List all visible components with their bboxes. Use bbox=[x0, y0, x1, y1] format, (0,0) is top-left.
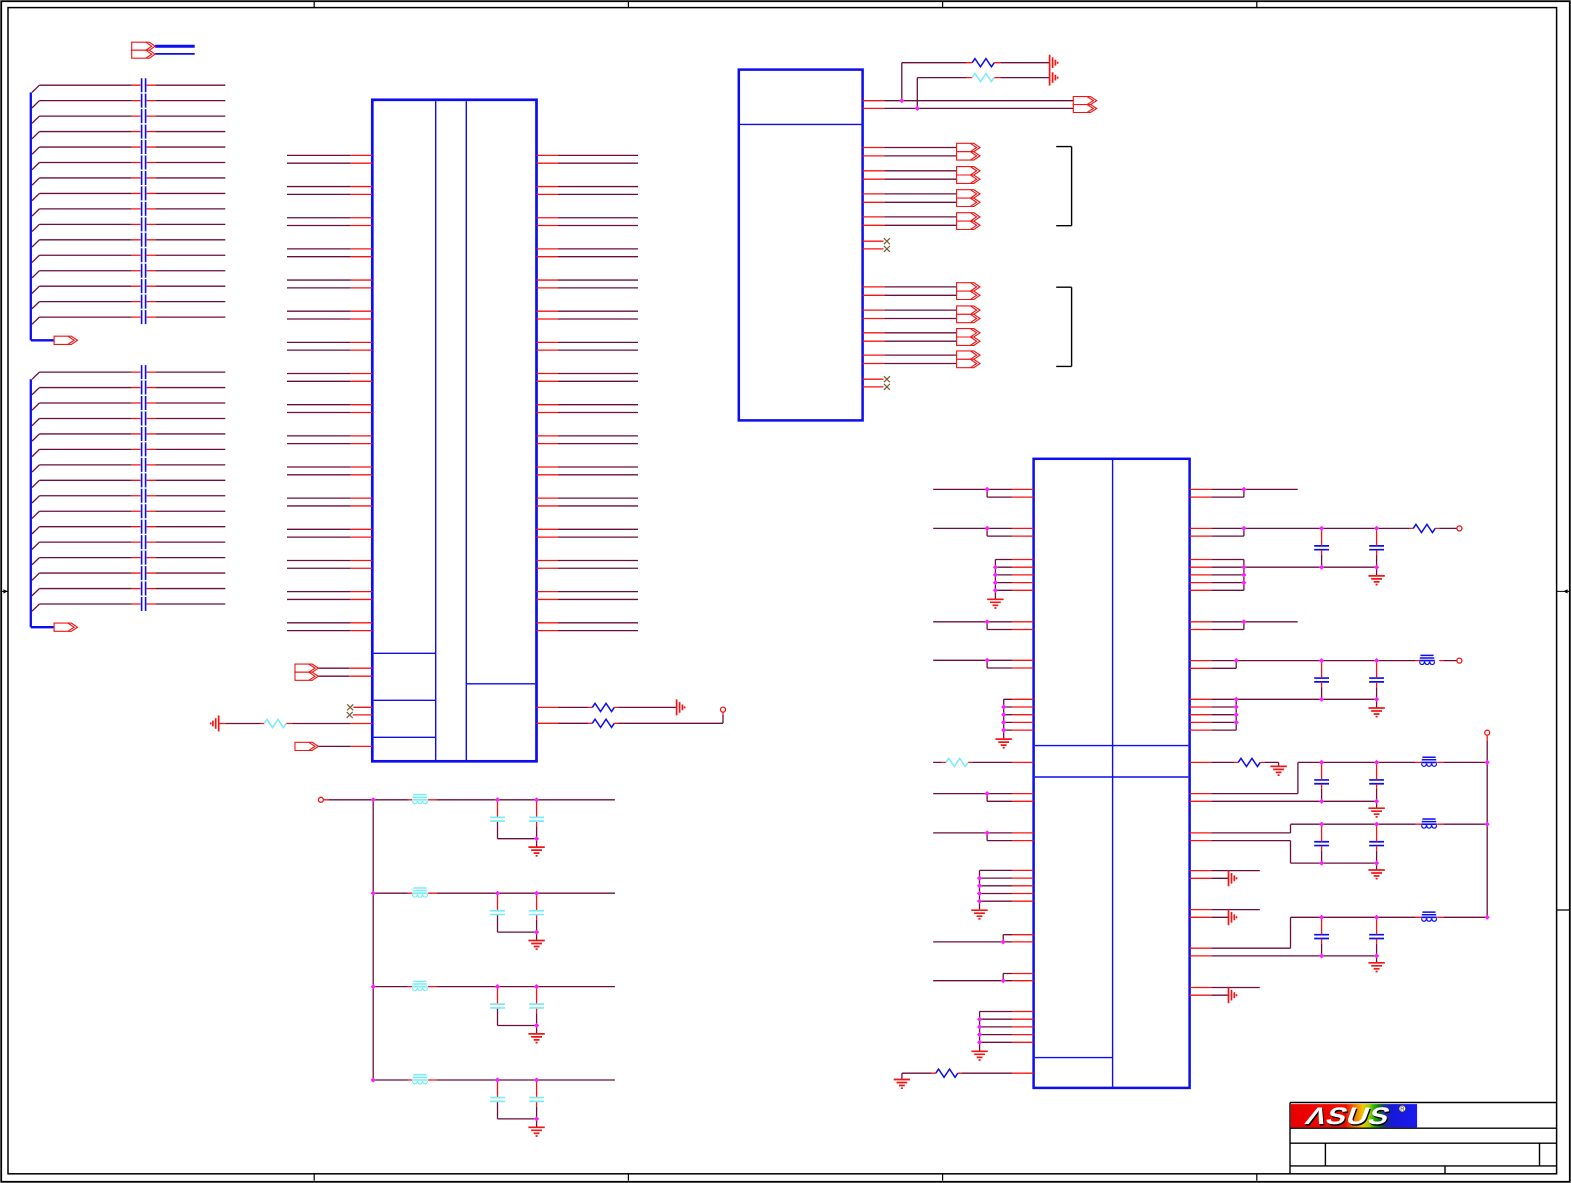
svg-text:R: R bbox=[1400, 1107, 1405, 1113]
svg-text:ΛSUS: ΛSUS bbox=[1302, 1102, 1394, 1129]
